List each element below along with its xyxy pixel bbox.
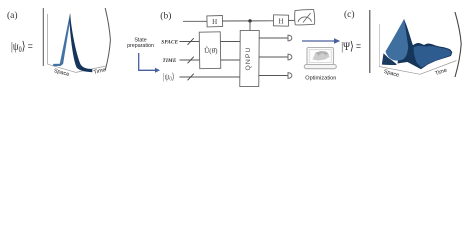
svg-text:H: H [278,17,283,25]
svg-text:Û(θ̂): Û(θ̂) [204,45,218,55]
svg-text:QNPU: QNPU [245,46,252,70]
svg-text:preparation: preparation [127,43,154,49]
svg-text:Optimization: Optimization [305,75,336,81]
svg-text:(b): (b) [160,11,171,22]
svg-text:|ψ0⟩ =: |ψ0⟩ = [11,40,33,54]
svg-text:|ψ0⟩: |ψ0⟩ [163,71,175,83]
svg-text:TIME: TIME [162,58,176,64]
svg-text:SPACE: SPACE [161,40,178,46]
svg-text:H: H [212,18,217,26]
svg-text:Space: Space [383,69,400,79]
svg-text:|Ψ⟩ =: |Ψ⟩ = [341,40,361,53]
svg-text:Time: Time [434,68,448,78]
svg-text:(a): (a) [7,10,18,21]
svg-text:(c): (c) [344,9,355,20]
